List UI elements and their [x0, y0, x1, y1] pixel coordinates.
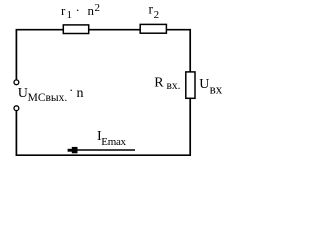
- svg-text:2: 2: [154, 9, 160, 21]
- svg-text:1: 1: [67, 9, 73, 21]
- svg-text:U: U: [199, 77, 209, 92]
- svg-text:2: 2: [95, 2, 101, 14]
- svg-text:Emax: Emax: [101, 136, 126, 148]
- svg-text:вх: вх: [210, 81, 223, 96]
- svg-text:МСвых.: МСвых.: [28, 92, 68, 104]
- svg-text:вх.: вх.: [167, 80, 181, 92]
- svg-text:n: n: [77, 86, 84, 101]
- svg-text:·: ·: [69, 83, 73, 98]
- svg-text:r: r: [61, 3, 66, 18]
- svg-text:R: R: [154, 76, 164, 91]
- svg-text:n: n: [88, 3, 95, 18]
- svg-text:U: U: [18, 86, 28, 101]
- svg-text:·: ·: [76, 3, 80, 18]
